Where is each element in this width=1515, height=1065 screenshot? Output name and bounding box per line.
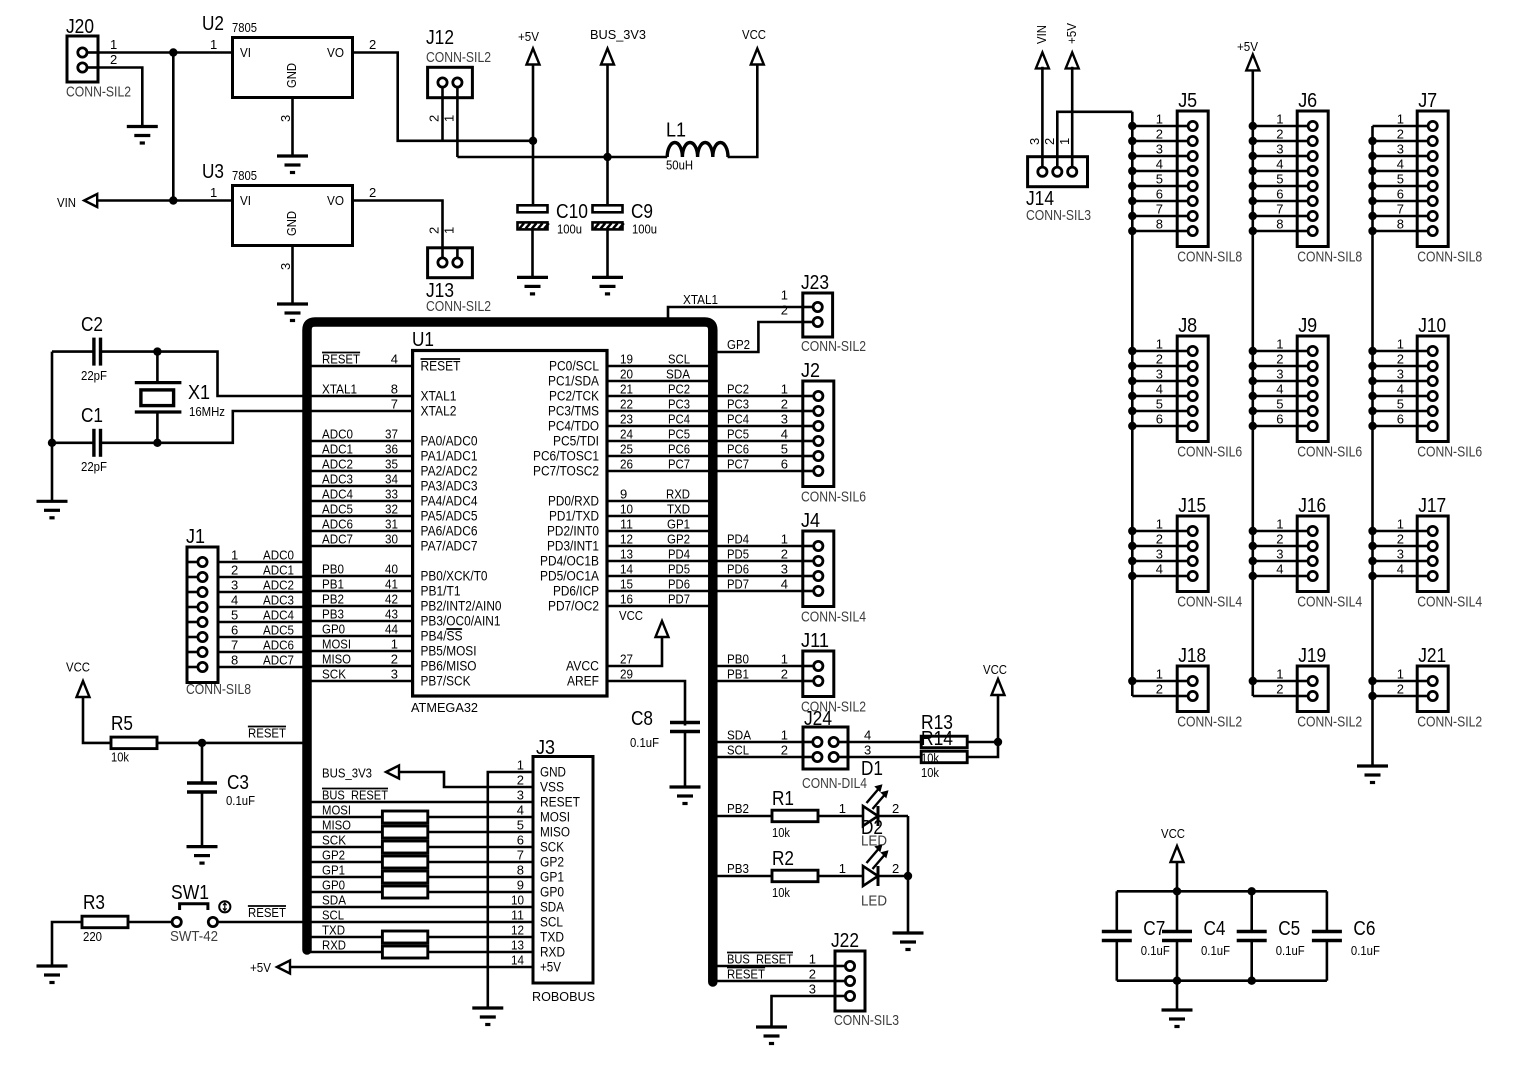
- junction J17 pin 2: [1368, 542, 1376, 550]
- svg-text:6: 6: [231, 623, 238, 638]
- svg-text:PC6: PC6: [668, 442, 690, 457]
- svg-text:2: 2: [369, 185, 376, 200]
- svg-text:PC6: PC6: [727, 442, 749, 457]
- wire J1 pin 7: [218, 651, 307, 654]
- wire J7 pin 2: [1373, 140, 1418, 143]
- wire bus row 832 to J3: [307, 831, 533, 834]
- svg-text:PC3: PC3: [668, 397, 690, 412]
- wire U1 left pin 44: [307, 635, 413, 638]
- svg-text:PB1/T1: PB1/T1: [421, 584, 461, 599]
- svg-text:GP2: GP2: [322, 848, 345, 863]
- wire J20 pin2 to ground: [98, 68, 142, 126]
- junction J9 pin 5: [1249, 407, 1257, 415]
- svg-text:4: 4: [1397, 157, 1404, 172]
- svg-text:3: 3: [864, 743, 871, 758]
- wire bus row 907 to J3: [307, 906, 533, 909]
- wire J6 pin 1: [1253, 125, 1297, 128]
- svg-text:11: 11: [511, 908, 524, 923]
- svg-text:1: 1: [210, 37, 217, 52]
- junction J7 pin 8: [1368, 227, 1376, 235]
- svg-text:PC2/TCK: PC2/TCK: [549, 389, 599, 404]
- connector J20: [67, 36, 98, 82]
- svg-text:PA7/ADC7: PA7/ADC7: [421, 539, 478, 554]
- connector J13: [428, 248, 473, 278]
- wire C6 vertical: [1326, 891, 1329, 931]
- wire U1 right pin 10: [607, 515, 713, 518]
- svg-text:CONN-SIL3: CONN-SIL3: [834, 1012, 899, 1029]
- wire U1 left pin 37: [307, 440, 413, 443]
- junction J6 pin 7: [1249, 212, 1257, 220]
- junction J10 pin 3: [1368, 377, 1376, 385]
- svg-text:3: 3: [517, 788, 524, 803]
- svg-text:2: 2: [1156, 352, 1163, 367]
- svg-text:C3: C3: [227, 772, 249, 794]
- junction J15 pin 1: [1128, 527, 1136, 535]
- svg-text:2: 2: [1276, 127, 1283, 142]
- wire J18 pin 1: [1132, 680, 1177, 683]
- svg-text:2: 2: [517, 773, 524, 788]
- wire J2 pin 5: [713, 455, 803, 458]
- connector J19: [1297, 666, 1328, 712]
- wire bus row 862 to J3: [307, 861, 533, 864]
- junction BUS_3V3: [603, 153, 611, 161]
- svg-text:4: 4: [1276, 157, 1283, 172]
- inductor L1: [667, 142, 728, 157]
- svg-text:3: 3: [1397, 367, 1404, 382]
- svg-text:1: 1: [1276, 667, 1283, 682]
- wire U1 left pin 3: [307, 680, 413, 683]
- connector J14: [1028, 157, 1088, 187]
- wire U1 left pin 2: [307, 665, 413, 668]
- svg-text:XTAL1: XTAL1: [683, 292, 718, 307]
- junction rail top C4: [1173, 887, 1181, 895]
- wire J8 pin 6: [1132, 425, 1177, 428]
- svg-text:CONN-SIL2: CONN-SIL2: [1297, 714, 1362, 731]
- svg-text:RESET: RESET: [248, 726, 286, 741]
- wire rail to ground: [1176, 981, 1179, 1009]
- wire VCC arrow right: [997, 694, 1000, 742]
- svg-text:25: 25: [620, 442, 633, 457]
- svg-text:PC5: PC5: [727, 427, 749, 442]
- VCC power arrow top: [751, 49, 764, 65]
- wire BUS_3V3 to J3 VSS: [399, 772, 533, 787]
- svg-text:PC3: PC3: [727, 397, 749, 412]
- wire J5 pin 8: [1132, 230, 1177, 233]
- svg-text:12: 12: [511, 923, 524, 938]
- svg-text:8: 8: [1276, 217, 1283, 232]
- svg-text:6: 6: [1397, 187, 1404, 202]
- wire J10 pin 4: [1373, 395, 1418, 398]
- wire BUS_3V3 vertical to C9: [606, 65, 609, 206]
- wire J6 pin 7: [1253, 215, 1297, 218]
- svg-text:GP2: GP2: [540, 855, 564, 870]
- svg-text:2: 2: [1397, 682, 1404, 697]
- svg-text:PD6: PD6: [727, 562, 749, 577]
- svg-text:0.1uF: 0.1uF: [1276, 943, 1305, 958]
- junction J9 pin 4: [1249, 392, 1257, 400]
- svg-text:2: 2: [1397, 127, 1404, 142]
- wire J16 pin 1: [1253, 530, 1297, 533]
- svg-text:GP1: GP1: [540, 870, 564, 885]
- svg-text:ADC1: ADC1: [263, 563, 294, 578]
- svg-text:+5V: +5V: [540, 960, 561, 975]
- junction C1 left: [48, 439, 56, 447]
- wire J2 pin 4: [713, 440, 803, 443]
- voltage regulator U3: [233, 186, 353, 246]
- capacitor C8: [670, 723, 700, 732]
- svg-text:3: 3: [1276, 547, 1283, 562]
- svg-text:2: 2: [1156, 127, 1163, 142]
- svg-text:3: 3: [1397, 142, 1404, 157]
- svg-text:4: 4: [781, 577, 788, 592]
- wire J1 pin 2: [218, 576, 307, 579]
- svg-text:3: 3: [278, 115, 293, 122]
- svg-text:3: 3: [1156, 367, 1163, 382]
- svg-text:4: 4: [1156, 562, 1163, 577]
- svg-text:PA0/ADC0: PA0/ADC0: [421, 434, 478, 449]
- svg-text:MOSI: MOSI: [540, 810, 570, 825]
- svg-text:ATMEGA32: ATMEGA32: [411, 700, 478, 715]
- svg-text:35: 35: [385, 457, 398, 472]
- svg-text:LED: LED: [861, 893, 887, 910]
- wire J1 pin 6: [218, 636, 307, 639]
- svg-text:0.1uF: 0.1uF: [226, 793, 255, 808]
- junction J5 pin 6: [1128, 197, 1136, 205]
- wire J9 pin 2: [1253, 365, 1297, 368]
- junction VCC right: [994, 738, 1002, 746]
- svg-text:GP1: GP1: [667, 517, 690, 532]
- wire XTAL1 to J23 pin1: [668, 307, 803, 318]
- series element box row 847: [382, 841, 427, 853]
- wire VCC to R5: [83, 697, 111, 743]
- svg-text:0.1uF: 0.1uF: [1141, 943, 1170, 958]
- svg-text:6: 6: [781, 457, 788, 472]
- junction J6 pin 6: [1249, 197, 1257, 205]
- ground at cap bank: [1162, 1010, 1193, 1027]
- svg-text:J12: J12: [426, 27, 454, 49]
- net arrow +5V bottom: [277, 961, 290, 974]
- svg-text:1: 1: [781, 728, 788, 743]
- capacitor C6: [1312, 932, 1342, 941]
- wire J21 pin 2: [1373, 695, 1418, 698]
- capacitor C4: [1162, 932, 1192, 941]
- svg-text:22pF: 22pF: [81, 459, 107, 474]
- svg-text:CONN-SIL6: CONN-SIL6: [1417, 444, 1482, 461]
- svg-text:1: 1: [1397, 667, 1404, 682]
- series element box row 952: [382, 946, 427, 958]
- svg-text:RESET: RESET: [248, 905, 286, 920]
- svg-text:4: 4: [1397, 562, 1404, 577]
- svg-text:ADC6: ADC6: [322, 517, 353, 532]
- svg-text:ADC5: ADC5: [263, 623, 294, 638]
- svg-text:RESET: RESET: [727, 967, 765, 982]
- junction J8 pin 1: [1128, 347, 1136, 355]
- svg-text:J23: J23: [801, 272, 829, 294]
- svg-text:10k: 10k: [921, 765, 939, 780]
- svg-text:PC2: PC2: [668, 382, 690, 397]
- svg-text:RESET: RESET: [322, 352, 360, 367]
- svg-text:PC4/TDO: PC4/TDO: [548, 419, 599, 434]
- +5V power arrow: [527, 49, 540, 65]
- wire J8 pin 2: [1132, 365, 1177, 368]
- svg-text:CONN-SIL6: CONN-SIL6: [1297, 444, 1362, 461]
- svg-text:1: 1: [781, 532, 788, 547]
- resistor R2: [772, 870, 818, 882]
- svg-text:PB3/OC0/AIN1: PB3/OC0/AIN1: [421, 614, 501, 629]
- svg-text:16: 16: [620, 592, 633, 607]
- svg-text:PC5: PC5: [668, 427, 690, 442]
- wire J19 pin 1: [1253, 680, 1297, 683]
- svg-text:2: 2: [427, 115, 442, 122]
- wire J10 pin 1: [1373, 350, 1418, 353]
- svg-text:VCC: VCC: [742, 27, 766, 42]
- svg-text:5: 5: [517, 818, 524, 833]
- junction J6 pin 8: [1249, 227, 1257, 235]
- svg-text:43: 43: [385, 607, 398, 622]
- wire J4 pin 2: [713, 560, 803, 563]
- trunk wire column 2: [1252, 70, 1255, 696]
- svg-text:VCC: VCC: [983, 662, 1007, 677]
- wire SW1 to bus RESET: [218, 921, 308, 924]
- svg-text:PB3: PB3: [322, 607, 344, 622]
- svg-text:5: 5: [1397, 172, 1404, 187]
- VCC power arrow at AVCC: [656, 621, 669, 637]
- wire U1 left pin 35: [307, 470, 413, 473]
- svg-text:PC2: PC2: [727, 382, 749, 397]
- wire J7 pin 6: [1373, 200, 1418, 203]
- VCC power arrow caps: [1171, 846, 1184, 862]
- +5V arrow at J14: [1066, 52, 1079, 68]
- wire U2 GND to ground: [291, 98, 294, 156]
- wire J10 pin 2: [1373, 365, 1418, 368]
- connector J7: [1417, 111, 1448, 247]
- BUS_3V3 power arrow: [601, 49, 614, 65]
- svg-text:4: 4: [864, 728, 871, 743]
- svg-text:GP1: GP1: [322, 863, 345, 878]
- connector J6: [1297, 111, 1328, 247]
- junction J9 pin 2: [1249, 362, 1257, 370]
- junction J15 pin 4: [1128, 572, 1136, 580]
- svg-text:4: 4: [391, 352, 398, 367]
- IC U1 ATMEGA32: [413, 351, 607, 697]
- svg-text:5: 5: [781, 442, 788, 457]
- resistor R5: [111, 737, 157, 749]
- svg-text:13: 13: [620, 547, 633, 562]
- wire J5 pin 1: [1132, 125, 1177, 128]
- svg-text:ADC4: ADC4: [322, 487, 353, 502]
- svg-text:100u: 100u: [557, 222, 582, 237]
- connector J11: [803, 651, 834, 697]
- wire C8 to ground: [684, 732, 687, 787]
- wire SDA to J24 pin1: [713, 741, 803, 744]
- svg-text:AREF: AREF: [567, 674, 599, 689]
- wire U1 right pin 15: [607, 590, 713, 593]
- +5V arrow middle column: [1246, 54, 1259, 70]
- svg-text:PB4/SS: PB4/SS: [421, 629, 463, 644]
- svg-text:PD2/INT0: PD2/INT0: [547, 524, 599, 539]
- wire R3 to SW1: [128, 921, 172, 924]
- svg-text:27: 27: [620, 652, 633, 667]
- junction +5V: [529, 137, 537, 145]
- series element box row 892: [382, 886, 427, 898]
- svg-text:J7: J7: [1418, 90, 1437, 112]
- svg-text:2: 2: [781, 667, 788, 682]
- wire D1 cathode: [878, 815, 908, 818]
- connector J16: [1297, 516, 1328, 592]
- svg-text:1: 1: [442, 115, 457, 122]
- wire +5V vertical to C10: [532, 65, 535, 206]
- svg-text:20: 20: [620, 367, 633, 382]
- junction J18 pin 1: [1128, 677, 1136, 685]
- svg-text:2: 2: [1397, 352, 1404, 367]
- junction J8 pin 4: [1128, 392, 1136, 400]
- svg-text:GND: GND: [284, 63, 299, 88]
- junction rail bottom C5: [1248, 977, 1256, 985]
- svg-text:24: 24: [620, 427, 633, 442]
- wire J15 pin 2: [1132, 545, 1177, 548]
- junction J10 pin 5: [1368, 407, 1376, 415]
- resistor R14: [921, 751, 967, 763]
- junction J10 pin 2: [1368, 362, 1376, 370]
- svg-text:10k: 10k: [111, 750, 129, 765]
- svg-text:31: 31: [385, 517, 398, 532]
- svg-text:CONN-DIL4: CONN-DIL4: [802, 775, 867, 792]
- svg-text:PD4: PD4: [668, 547, 690, 562]
- svg-text:29: 29: [620, 667, 633, 682]
- svg-text:CONN-SIL4: CONN-SIL4: [1177, 594, 1242, 611]
- svg-text:CONN-SIL6: CONN-SIL6: [1177, 444, 1242, 461]
- ground at J22: [756, 1027, 787, 1044]
- junction J21 pin 1: [1368, 677, 1376, 685]
- svg-text:PC7: PC7: [668, 457, 690, 472]
- svg-text:ADC2: ADC2: [322, 457, 353, 472]
- wire J10 pin 5: [1373, 410, 1418, 413]
- wire J1 pin 4: [218, 606, 307, 609]
- svg-text:J22: J22: [831, 930, 859, 952]
- wire J17 pin 1: [1373, 530, 1418, 533]
- wire J19 pin 2: [1253, 695, 1297, 698]
- wire LED common to ground: [907, 816, 910, 932]
- svg-text:5: 5: [231, 608, 238, 623]
- wire U1 right pin 9: [607, 500, 713, 503]
- junction J7 pin 6: [1368, 197, 1376, 205]
- svg-text:SCK: SCK: [322, 833, 346, 848]
- wire J9 pin 3: [1253, 380, 1297, 383]
- svg-text:ADC7: ADC7: [322, 532, 353, 547]
- svg-text:14: 14: [511, 953, 524, 968]
- svg-text:3: 3: [278, 263, 293, 270]
- junction J10 pin 4: [1368, 392, 1376, 400]
- wire J7 pin 7: [1373, 215, 1418, 218]
- wire J8 pin 4: [1132, 395, 1177, 398]
- svg-text:ROBOBUS: ROBOBUS: [532, 989, 595, 1004]
- svg-text:4: 4: [781, 427, 788, 442]
- junction VIN bottom: [169, 196, 177, 204]
- wire U1 right pin 24: [607, 440, 713, 443]
- wire J20 pin1 to U2 VI: [98, 51, 233, 54]
- svg-text:J2: J2: [801, 360, 820, 382]
- wire J5 pin 7: [1132, 215, 1177, 218]
- wire +5V to J14 pin1: [1071, 67, 1074, 172]
- svg-text:MISO: MISO: [540, 825, 570, 840]
- svg-text:7: 7: [231, 638, 238, 653]
- svg-text:C9: C9: [631, 201, 653, 223]
- svg-text:1: 1: [1397, 517, 1404, 532]
- svg-text:5: 5: [1156, 172, 1163, 187]
- svg-text:220: 220: [83, 929, 102, 944]
- svg-text:3: 3: [1027, 138, 1042, 145]
- svg-text:J8: J8: [1178, 315, 1197, 337]
- svg-text:7: 7: [1276, 202, 1283, 217]
- svg-text:36: 36: [385, 442, 398, 457]
- svg-text:CONN-SIL8: CONN-SIL8: [1177, 249, 1242, 266]
- crystal X1: [156, 352, 159, 383]
- wire U1 left pin 32: [307, 515, 413, 518]
- junction J6 pin 4: [1249, 167, 1257, 175]
- svg-text:40: 40: [385, 562, 398, 577]
- svg-text:ADC2: ADC2: [263, 578, 294, 593]
- svg-text:21: 21: [620, 382, 633, 397]
- svg-text:11: 11: [620, 517, 633, 532]
- wire J17 pin 3: [1373, 560, 1418, 563]
- bus backbone (thick): [307, 322, 713, 982]
- wire J24 pin3 to R14: [848, 756, 921, 759]
- svg-text:C2: C2: [81, 314, 103, 336]
- svg-text:1: 1: [1276, 517, 1283, 532]
- svg-text:10: 10: [511, 893, 524, 908]
- wire J2 pin 6: [713, 470, 803, 473]
- svg-text:U2: U2: [202, 13, 224, 35]
- wire U1 right pin 23: [607, 425, 713, 428]
- svg-text:CONN-SIL4: CONN-SIL4: [1297, 594, 1362, 611]
- connector J2: [803, 381, 834, 487]
- svg-text:J6: J6: [1298, 90, 1317, 112]
- svg-text:R3: R3: [83, 892, 105, 914]
- junction J16 pin 4: [1249, 572, 1257, 580]
- svg-text:+5V: +5V: [1064, 23, 1079, 44]
- wire J1 pin 5: [218, 621, 307, 624]
- wire J3 GND to ground: [488, 772, 533, 1007]
- wire J17 pin 2: [1373, 545, 1418, 548]
- svg-text:8: 8: [1397, 217, 1404, 232]
- ground at U2: [277, 156, 308, 173]
- wire J10 pin 6: [1373, 425, 1418, 428]
- svg-text:1: 1: [1276, 112, 1283, 127]
- svg-text:PB2: PB2: [727, 801, 749, 816]
- svg-text:8: 8: [391, 382, 398, 397]
- wire VIN arrow to U3 VI: [97, 199, 232, 202]
- svg-text:ADC1: ADC1: [322, 442, 353, 457]
- svg-text:10k: 10k: [921, 751, 939, 766]
- svg-text:1: 1: [1397, 337, 1404, 352]
- svg-text:PA1/ADC1: PA1/ADC1: [421, 449, 478, 464]
- svg-text:J3: J3: [536, 737, 555, 759]
- junction J6 pin 2: [1249, 137, 1257, 145]
- junction J19 pin 1: [1249, 677, 1257, 685]
- wire PB2 to R1: [713, 815, 772, 818]
- junction J15 pin 3: [1128, 557, 1136, 565]
- svg-text:7: 7: [391, 397, 398, 412]
- svg-text:4: 4: [1397, 382, 1404, 397]
- wire J7 pin 3: [1373, 155, 1418, 158]
- svg-text:TXD: TXD: [322, 923, 345, 938]
- svg-text:PD7: PD7: [668, 592, 690, 607]
- wire U3 GND to ground: [291, 246, 294, 304]
- svg-text:CONN-SIL8: CONN-SIL8: [186, 681, 251, 698]
- junction J5 pin 8: [1128, 227, 1136, 235]
- junction X1 bottom: [153, 439, 161, 447]
- junction J17 pin 3: [1368, 557, 1376, 565]
